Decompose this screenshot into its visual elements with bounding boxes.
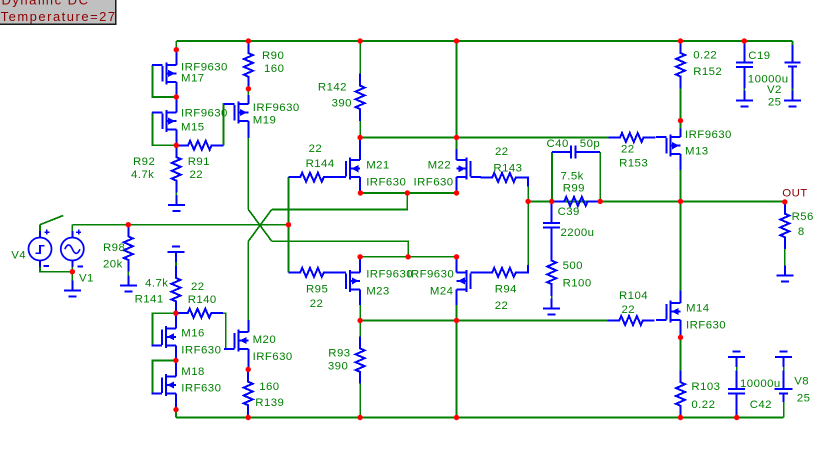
capacitor C19: [736, 41, 753, 89]
label M22 IRF630: [414, 177, 454, 189]
svg-text:390: 390: [332, 98, 352, 110]
svg-text:IRF630: IRF630: [181, 383, 221, 395]
label R143 value: [495, 146, 509, 158]
wire V2 drop: [791, 41, 793, 45]
label C40 value: [580, 138, 600, 150]
svg-text:R90: R90: [262, 50, 284, 62]
resistor R142: [356, 74, 365, 122]
label R95: [306, 284, 328, 296]
svg-text:R94: R94: [495, 284, 517, 296]
label C19: [748, 50, 770, 62]
wire input line: [72, 224, 288, 226]
label R99: [563, 183, 585, 195]
ground R98: [120, 275, 137, 291]
svg-text:10000u: 10000u: [740, 378, 781, 390]
wire M24 source link: [456, 305, 458, 321]
wire upper cross link: [272, 193, 408, 209]
resistor R94: [481, 265, 529, 277]
svg-text:M17: M17: [181, 73, 205, 85]
svg-text:R93: R93: [328, 347, 350, 359]
resistor R99: [552, 197, 601, 206]
wire R92 gnd link: [175, 192, 177, 195]
label R144: [306, 158, 335, 170]
svg-text:V2: V2: [767, 84, 782, 96]
label M13: [685, 146, 709, 158]
label M13 IRF9630: [685, 129, 732, 141]
node M22 drain: [454, 135, 459, 140]
label R153 value: [621, 144, 635, 156]
label R139: [255, 397, 284, 409]
svg-text:R99: R99: [563, 183, 585, 195]
label C40: [547, 138, 569, 150]
wire V8 top link: [783, 367, 785, 371]
label V8 value: [797, 393, 811, 405]
svg-text:IRF9630: IRF9630: [407, 269, 454, 281]
label R98: [103, 242, 125, 254]
svg-text:22: 22: [495, 300, 509, 312]
label M24: [430, 286, 454, 298]
transistor M23: [336, 257, 361, 305]
svg-text:C42: C42: [750, 399, 772, 411]
svg-text:22: 22: [621, 144, 635, 156]
wire drain rail: [360, 137, 608, 139]
svg-text:22: 22: [191, 281, 205, 293]
svg-text:IRF630: IRF630: [686, 320, 726, 332]
wire M19 source down: [247, 138, 249, 209]
svg-text:M13: M13: [685, 146, 709, 158]
label M16: [181, 328, 205, 340]
node source rail mid: [405, 190, 410, 195]
label R143: [493, 163, 522, 175]
svg-text:0.22: 0.22: [693, 50, 717, 62]
label M14: [686, 303, 710, 315]
label R142 value: [332, 98, 352, 110]
svg-text:OUT: OUT: [782, 188, 807, 200]
svg-text:20k: 20k: [103, 259, 123, 271]
node M23 top: [357, 254, 362, 259]
svg-text:IRF630: IRF630: [414, 177, 454, 189]
label M15 IRF9630: [181, 108, 228, 120]
transistor M13: [656, 121, 681, 170]
label R140 value: [191, 281, 205, 293]
wire R143 down link: [527, 187, 529, 202]
svg-text:IRF9630: IRF9630: [685, 129, 732, 141]
label R152: [693, 66, 722, 78]
wire R56 gnd link: [784, 249, 786, 266]
transistor M22: [457, 149, 482, 193]
wire R141 gnd link: [175, 262, 177, 266]
ground R56: [776, 266, 793, 282]
transistor M24: [457, 257, 482, 305]
svg-text:M21: M21: [366, 160, 390, 172]
wire N source rail: [360, 192, 456, 194]
wire lower cross link: [272, 241, 408, 256]
ground V1: [64, 281, 81, 297]
node M15-R92-R91: [174, 143, 179, 148]
node P rail mid: [405, 254, 410, 259]
svg-text:IRF9630: IRF9630: [181, 61, 228, 73]
wire V1 bottom: [71, 267, 73, 281]
wire V4 top: [39, 225, 41, 231]
transistor M17: [152, 50, 177, 97]
wire X diagonal 1: [248, 209, 271, 241]
wire M24 to bottom rail: [456, 321, 458, 418]
resistor R143: [481, 173, 529, 187]
resistor R93: [356, 337, 365, 384]
label V2: [767, 84, 782, 96]
resistor R98: [124, 225, 133, 272]
transistor M15: [152, 97, 177, 145]
node M21 source: [358, 190, 363, 195]
svg-text:7.5k: 7.5k: [561, 171, 584, 183]
node M24 top: [454, 254, 459, 259]
wire M13 source link: [680, 170, 682, 201]
svg-text:Dynamic DC: Dynamic DC: [2, 0, 90, 8]
label C39 value: [561, 227, 595, 239]
svg-text:R143: R143: [493, 163, 522, 175]
transistor M14: [656, 291, 681, 338]
wire M17 drain stub: [175, 41, 177, 50]
label R103: [691, 381, 720, 393]
node input gates: [286, 222, 291, 227]
label R140: [188, 294, 217, 306]
node V1-V4 minus: [70, 269, 75, 274]
svg-text:M24: M24: [430, 286, 454, 298]
svg-text:V8: V8: [794, 376, 809, 388]
label M24 IRF9630: [407, 269, 454, 281]
label V2 value: [768, 97, 782, 109]
voltage source V2 battery: [784, 45, 800, 89]
node M17 drain: [174, 47, 179, 52]
wire V8 bottom link: [783, 402, 785, 418]
label R91: [188, 156, 210, 168]
label C42 value: [740, 378, 781, 390]
wire V4 switch arm: [40, 216, 63, 225]
wire V2 gnd link: [791, 89, 793, 91]
svg-text:R144: R144: [306, 158, 335, 170]
ground V8 inverted: [775, 351, 792, 367]
resistor R140: [176, 309, 223, 318]
svg-text:R152: R152: [693, 66, 722, 78]
wire R93 bottom link: [359, 384, 361, 418]
node R152 top: [678, 38, 683, 43]
svg-text:R139: R139: [255, 397, 284, 409]
svg-text:M15: M15: [181, 122, 205, 134]
node R103 bottom: [678, 415, 683, 420]
node OUT pin: [782, 199, 787, 204]
label R103 value: [691, 399, 715, 411]
resistor R56: [780, 202, 789, 249]
label R92 value: [131, 169, 154, 181]
label R91 value: [190, 169, 204, 181]
resistor R144: [289, 173, 336, 182]
wire R94 up link: [527, 201, 529, 265]
wire R98 gnd link: [127, 272, 129, 276]
label R98 value: [103, 259, 123, 271]
label R92: [133, 156, 155, 168]
label R99 value: [561, 171, 584, 183]
label M18 IRF630: [181, 383, 221, 395]
capacitor C42: [728, 371, 745, 418]
label M20 IRF630: [253, 351, 293, 363]
ground R141 inverted: [168, 246, 185, 262]
node R152-M13: [678, 118, 683, 123]
node C19 top: [742, 38, 747, 43]
wire M18 gate loop: [152, 360, 176, 393]
svg-text:IRF9630: IRF9630: [253, 102, 300, 114]
wire M16 gate loop: [152, 313, 176, 345]
node C42 bottom: [734, 415, 739, 420]
label M17 IRF9630: [181, 61, 228, 73]
transistor M18: [152, 360, 177, 409]
svg-text:Temperature=27: Temperature=27: [1, 9, 117, 24]
svg-text:50p: 50p: [580, 138, 600, 150]
voltage source V8 battery: [775, 371, 793, 403]
svg-text:390: 390: [328, 361, 348, 373]
label C39: [558, 206, 580, 218]
node M24 rail: [454, 415, 459, 420]
label M20: [253, 334, 277, 346]
label R152 value: [693, 50, 717, 62]
wire R91 to M19 gate: [223, 104, 234, 145]
transistor M21: [336, 138, 361, 194]
label M19 IRF9630: [253, 102, 300, 114]
svg-text:M22: M22: [428, 160, 452, 172]
svg-text:C19: C19: [748, 50, 770, 62]
wire X diagonal 2: [248, 209, 271, 241]
node M23-R93: [357, 318, 362, 323]
voltage source V1: [61, 230, 84, 267]
node M14-R103: [678, 335, 683, 340]
wire R100 gnd link: [551, 296, 553, 299]
svg-text:IRF630: IRF630: [253, 351, 293, 363]
svg-text:V4: V4: [11, 250, 26, 262]
ground R100: [543, 298, 560, 314]
node M13 source OUT: [678, 199, 683, 204]
svg-text:22: 22: [495, 146, 509, 158]
svg-text:R104: R104: [619, 290, 648, 302]
node M16 drain: [173, 311, 178, 316]
node R142-M21: [357, 135, 362, 140]
svg-text:R92: R92: [133, 156, 155, 168]
label R139 value: [259, 381, 279, 393]
title box: [0, 0, 117, 24]
node C39 out: [549, 199, 554, 204]
svg-text:R98: R98: [103, 242, 125, 254]
svg-text:160: 160: [264, 63, 284, 75]
svg-text:R142: R142: [318, 82, 347, 94]
wire lower mid rail: [360, 320, 607, 322]
node R90-M19: [246, 86, 251, 91]
svg-text:4.7k: 4.7k: [131, 169, 154, 181]
label V8: [794, 376, 809, 388]
resistor R95: [289, 268, 336, 277]
svg-text:R103: R103: [691, 381, 720, 393]
svg-text:M18: M18: [181, 366, 205, 378]
wire OUT rail: [528, 200, 785, 202]
svg-text:2200u: 2200u: [561, 227, 595, 239]
wire R140 to M20 gate: [223, 313, 234, 349]
svg-text:M19: M19: [253, 115, 277, 127]
wire input to gates vertical: [288, 177, 290, 272]
node R142 top: [357, 38, 362, 43]
voltage source V4: [29, 230, 52, 267]
label V1: [79, 273, 94, 285]
label R90 value: [264, 63, 284, 75]
resistor R153: [608, 133, 655, 142]
wire M22 column: [456, 41, 458, 149]
wire C42 top link: [736, 367, 738, 371]
label R95 value: [310, 298, 324, 310]
label R141 value: [145, 277, 168, 289]
label C42: [750, 399, 772, 411]
wire V4 bottom: [40, 267, 72, 272]
wire R142 top link: [359, 41, 361, 74]
svg-text:25: 25: [768, 97, 782, 109]
wire M18 source stub: [175, 410, 177, 418]
svg-text:M16: M16: [181, 328, 205, 340]
svg-text:0.22: 0.22: [691, 399, 715, 411]
node rail M22 top: [454, 38, 459, 43]
resistor R141: [172, 266, 181, 313]
resistor R139: [244, 370, 253, 418]
label M15: [181, 122, 205, 134]
node M20-R139: [246, 367, 251, 372]
wire M14 drain link: [680, 201, 682, 290]
label R93 value: [328, 361, 348, 373]
ground V2: [784, 90, 801, 106]
svg-text:IRF630: IRF630: [366, 177, 406, 189]
wire C40 right link: [599, 152, 601, 201]
label R104: [619, 290, 648, 302]
label M22: [428, 160, 452, 172]
label R141: [135, 294, 164, 306]
transistor M16: [152, 313, 177, 360]
node R98 top: [126, 222, 131, 227]
node R90 top: [246, 38, 251, 43]
svg-text:IRF630: IRF630: [181, 345, 221, 357]
resistor R92: [172, 145, 181, 192]
svg-text:25: 25: [797, 393, 811, 405]
resistor R104: [608, 316, 655, 325]
label R56: [792, 211, 814, 223]
label R90: [262, 50, 284, 62]
capacitor C39: [543, 201, 560, 249]
svg-text:22: 22: [309, 143, 323, 155]
svg-text:M23: M23: [366, 286, 390, 298]
resistor R152: [676, 41, 685, 89]
wire top rail: [176, 40, 792, 42]
svg-text:R56: R56: [792, 211, 814, 223]
label OUT: [782, 188, 807, 200]
capacitor C40: [552, 146, 600, 159]
svg-text:22: 22: [190, 169, 204, 181]
ground C42 inverted: [728, 351, 745, 367]
wire bottom rail: [176, 417, 784, 419]
svg-text:C40: C40: [547, 138, 569, 150]
resistor R100: [547, 249, 556, 296]
label R144 value: [309, 143, 323, 155]
svg-text:R95: R95: [306, 284, 328, 296]
wire P drain rail: [360, 256, 456, 258]
label R142: [318, 82, 347, 94]
svg-text:IRF9630: IRF9630: [181, 108, 228, 120]
label M23: [366, 286, 390, 298]
label M21: [366, 160, 390, 172]
label V4: [11, 250, 26, 262]
label R56 value: [798, 226, 805, 238]
svg-text:500: 500: [563, 260, 583, 272]
resistor R103: [676, 371, 685, 418]
label C19 value: [748, 74, 789, 86]
label M18: [181, 366, 205, 378]
wire V1 top: [71, 225, 73, 231]
label R94 value: [495, 300, 509, 312]
svg-text:R91: R91: [188, 156, 210, 168]
label M19: [253, 115, 277, 127]
label M16 IRF630: [181, 345, 221, 357]
svg-text:C39: C39: [558, 206, 580, 218]
wire C19 gnd link: [743, 89, 745, 91]
node M17-M15: [174, 94, 179, 99]
node R93 bottom: [357, 415, 362, 420]
svg-text:4.7k: 4.7k: [145, 277, 168, 289]
transistor M20: [224, 320, 249, 370]
resistor R91: [176, 141, 223, 150]
svg-text:R153: R153: [619, 158, 648, 170]
label R93: [328, 347, 350, 359]
svg-text:M20: M20: [253, 334, 277, 346]
ground R92: [168, 195, 185, 211]
transistor M19: [224, 89, 249, 138]
resistor R90: [244, 41, 253, 89]
svg-text:IRF9630: IRF9630: [366, 269, 413, 281]
svg-text:M14: M14: [686, 303, 710, 315]
svg-text:8: 8: [798, 226, 805, 238]
ground C19: [736, 90, 753, 106]
label M23 IRF9630: [366, 269, 413, 281]
node R139 bottom: [246, 415, 251, 420]
node M16-M18: [173, 358, 178, 363]
svg-text:R140: R140: [188, 294, 217, 306]
label R100 value: [563, 260, 583, 272]
svg-text:160: 160: [259, 381, 279, 393]
label R104 value: [622, 304, 636, 316]
label R94: [495, 284, 517, 296]
svg-text:22: 22: [622, 304, 636, 316]
label R153: [619, 158, 648, 170]
node R99 right: [598, 199, 603, 204]
wire M15 gate loop: [152, 113, 176, 146]
wire M17 gate loop: [152, 65, 176, 97]
label R100: [563, 278, 592, 290]
wire R152 to M13: [680, 89, 682, 121]
node M24 bottom: [454, 318, 459, 323]
wire M20 drain down: [247, 241, 249, 320]
wire M14 source to R103: [680, 337, 682, 370]
svg-text:R141: R141: [135, 294, 164, 306]
wire R93 top link: [359, 321, 361, 337]
label M21 IRF630: [366, 177, 406, 189]
label M17: [181, 73, 205, 85]
wire M23 source link: [359, 305, 361, 321]
wire R142 bottom link: [359, 121, 361, 137]
label M14 IRF630: [686, 320, 726, 332]
svg-text:R100: R100: [563, 278, 592, 290]
svg-text:V1: V1: [79, 273, 94, 285]
svg-text:22: 22: [310, 298, 324, 310]
node M22 source: [454, 190, 459, 195]
